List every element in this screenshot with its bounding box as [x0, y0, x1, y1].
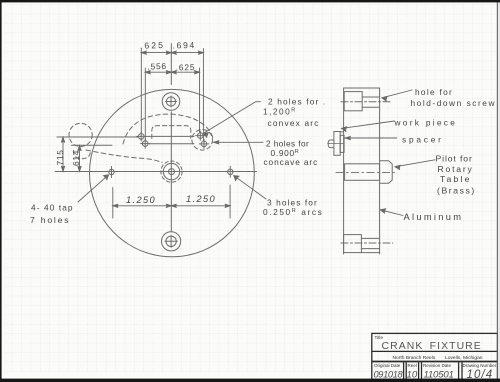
slot top line right part — [144, 135, 194, 137]
svg-text:concave arc: concave arc — [264, 157, 319, 167]
svg-text:hold-down screw: hold-down screw — [411, 98, 497, 108]
pilot cylinder — [345, 164, 380, 181]
svg-text:convex arc: convex arc — [268, 118, 320, 128]
work piece top connector — [340, 131, 343, 133]
arrowhead hold-down leader — [382, 96, 387, 101]
ext line bottom right — [229, 185, 231, 218]
ext line bottom left — [112, 188, 114, 219]
svg-text:Pilot for: Pilot for — [436, 154, 473, 164]
cell divider 3 (double) — [459, 362, 462, 379]
dashed work piece inner arc — [152, 126, 191, 139]
hole bottom (counterbore) — [166, 236, 176, 246]
arrow dim .625 row2 left end — [171, 71, 176, 74]
slot top line — [57, 136, 138, 138]
svg-text:hole for: hole for — [415, 87, 453, 97]
dashed circle around right slot pair — [192, 130, 213, 151]
svg-text:.625: .625 — [176, 62, 196, 72]
dim line 1.250 bottom — [113, 205, 230, 207]
svg-text:091018: 091018 — [374, 370, 404, 380]
svg-text:Reel: Reel — [408, 363, 417, 368]
svg-text:.694: .694 — [172, 40, 196, 50]
arrowhead concave leader — [214, 141, 220, 144]
company row divider — [372, 361, 498, 363]
hole slot lower-left — [142, 141, 148, 147]
svg-text:Table: Table — [440, 174, 472, 184]
svg-text:North Branch Reels: North Branch Reels — [393, 355, 436, 361]
arrow dim .694 left end — [171, 51, 176, 54]
arrow dim .556 left end — [145, 71, 150, 74]
leader 4-40 tap — [78, 175, 109, 202]
arrowhead spacer leader — [345, 136, 351, 139]
bottom center line — [341, 242, 393, 244]
arrow dim 1.250 right end — [225, 204, 230, 207]
svg-text:3 holes for: 3 holes for — [267, 197, 318, 207]
clamp tab — [328, 140, 333, 148]
hole left tap — [109, 169, 114, 174]
hole top (counterbore) — [166, 97, 175, 106]
svg-text:.625: .625 — [140, 40, 165, 51]
ext line right x203 — [202, 49, 204, 141]
arrow dim 1.250 left center end — [166, 204, 171, 207]
leader spacer — [345, 137, 397, 139]
svg-text:Rotary: Rotary — [438, 164, 474, 174]
side plate bar — [344, 88, 380, 254]
dim .715 vertical — [62, 137, 64, 171]
svg-text:Aluminum: Aluminum — [404, 212, 464, 222]
side plate bottom line — [361, 252, 379, 254]
pilot flange cap — [380, 161, 393, 183]
svg-text:spacer: spacer — [402, 134, 444, 144]
bottom counterbore — [344, 235, 362, 253]
slot bottom-left line — [72, 144, 113, 146]
dim line .556/.625 second row — [145, 71, 199, 73]
arrowhead pilot leader — [395, 165, 400, 169]
leader 3 holes — [234, 176, 266, 199]
ext line right x199.5 — [199, 68, 201, 132]
arrow dim .625 row2 right end — [194, 71, 199, 74]
svg-text:work piece: work piece — [394, 117, 458, 127]
svg-text:4- 40 tap: 4- 40 tap — [31, 203, 74, 213]
leader convex arc holes — [204, 102, 261, 134]
right edge band — [498, 0, 500, 382]
svg-text:.715: .715 — [55, 149, 65, 168]
hole slot upper-left — [138, 134, 144, 140]
svg-text:Title: Title — [375, 335, 384, 340]
arrow dim .694 right end — [198, 51, 203, 54]
hole center (counterbore) — [169, 169, 175, 175]
work piece (edge view) — [334, 132, 340, 156]
arrowhead aluminum leader — [380, 209, 386, 214]
hold-down hole lines — [362, 97, 379, 107]
arrow dim .715 bottom end — [61, 166, 64, 171]
arrow dim 1.250 left end — [113, 204, 118, 207]
svg-text:2 holes for: 2 holes for — [266, 138, 309, 148]
hole slot upper-right — [198, 133, 204, 139]
vertical center line — [170, 44, 172, 233]
arrow dim .625 left end — [141, 51, 146, 54]
svg-text:CRANK FIXTURE: CRANK FIXTURE — [382, 341, 482, 352]
left scan bar — [0, 0, 2, 382]
right frame line — [496, 2, 498, 380]
arrow dim .715 top end — [61, 137, 64, 142]
svg-text:Revision Date: Revision Date — [423, 363, 452, 368]
plate outline (big circle) — [89, 89, 254, 256]
pilot center line — [336, 171, 398, 173]
svg-text:.556: .556 — [147, 61, 167, 72]
arrow dim 1.250 right center end — [171, 204, 176, 207]
cell divider 1 (double) — [404, 362, 407, 379]
spacer (edge view) — [340, 135, 344, 152]
leader work piece — [342, 121, 395, 128]
bottom scan bar — [0, 379, 500, 382]
leader concave arc holes — [214, 141, 264, 143]
hole slot lower-right — [201, 141, 207, 147]
title block outer box — [372, 333, 498, 379]
dim line .625/.694 top row — [141, 52, 203, 54]
slot bottom line — [149, 143, 194, 145]
svg-text:1.250: 1.250 — [126, 195, 156, 205]
svg-text:2 holes for .: 2 holes for . — [268, 97, 326, 107]
bottom hole lines — [361, 238, 379, 248]
svg-text:1.250: 1.250 — [186, 194, 216, 204]
arrow dim .556 right end — [166, 71, 171, 74]
tab center line — [328, 143, 345, 145]
hole right tap — [228, 169, 233, 174]
dashed blob lower-left — [73, 151, 90, 159]
horizontal center line — [55, 171, 257, 173]
arrow dim .614 bottom end — [78, 166, 81, 171]
dashed tail curve to center hub — [86, 150, 162, 163]
ext line left x145 — [144, 68, 146, 140]
hold-down center line — [341, 101, 390, 103]
arrow dim .614 top end — [78, 146, 81, 151]
svg-text:Lovells, Michigan: Lovells, Michigan — [445, 355, 483, 361]
title row divider — [372, 350, 498, 352]
arrowhead convex leader — [204, 133, 209, 138]
ext line left x141 — [140, 49, 142, 133]
arrowhead 4-40 tap leader — [103, 175, 108, 180]
top scan bar — [0, 0, 500, 2]
dim .614 vertical — [79, 146, 81, 172]
svg-text:(Brass): (Brass) — [437, 186, 476, 196]
svg-text:7 holes: 7 holes — [30, 215, 70, 225]
svg-text:.614: .614 — [71, 150, 81, 169]
svg-text:Original Date: Original Date — [374, 363, 401, 368]
dashed circle left slot end — [69, 123, 92, 146]
hold-down screw counterbore — [344, 92, 362, 111]
arrowhead work piece leader — [342, 127, 347, 132]
dashed work piece outer arc — [123, 114, 214, 144]
svg-text:Drawing Number: Drawing Number — [463, 363, 497, 368]
arrowhead 3 holes leader — [234, 176, 239, 181]
leader aluminum — [380, 210, 403, 216]
arrow dim .625 right end — [166, 51, 171, 54]
cell divider 2 (double) — [419, 362, 422, 379]
leader pilot — [395, 160, 435, 167]
leader hold-down screw — [382, 90, 412, 98]
